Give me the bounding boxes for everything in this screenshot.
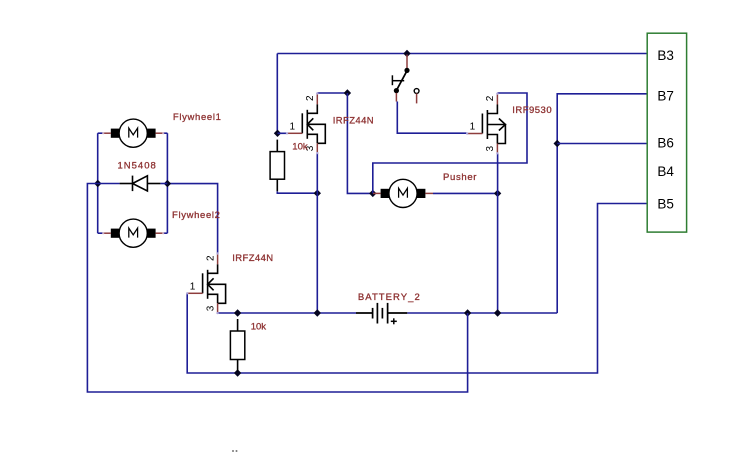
wire far-left drop to bottom rail xyxy=(87,184,467,393)
svg-text:B5: B5 xyxy=(657,196,674,211)
battery BATTERY_2 xyxy=(356,312,373,314)
wire Flywheel1 right stub xyxy=(163,132,167,134)
svg-text:1: 1 xyxy=(470,122,476,133)
node diode left junction xyxy=(94,180,101,187)
wire Flywheel2 left stub xyxy=(98,232,104,234)
node battery rail / Q1-source junction xyxy=(314,309,321,316)
svg-text:Flywheel1: Flywheel1 xyxy=(173,112,222,123)
wire from Q1 drain node down to Pusher row xyxy=(347,93,372,193)
mosfet Q2 IRFZ44N xyxy=(202,273,204,293)
node switch top junction xyxy=(403,50,410,57)
resistor R2 10k xyxy=(237,319,239,331)
svg-text:10k: 10k xyxy=(251,322,267,333)
svg-text:2: 2 xyxy=(305,95,316,101)
mosfet Q1 IRFZ44N xyxy=(301,113,303,133)
node battery rail / Pusher junction xyxy=(494,309,501,316)
svg-text:3: 3 xyxy=(205,305,216,311)
svg-text:3: 3 xyxy=(485,146,496,152)
wire Pusher left up-and-over to IRF9530 drain xyxy=(373,93,527,193)
motor Flywheel1 xyxy=(119,119,147,147)
wire Q1 drain to corner xyxy=(317,92,347,94)
svg-text:10k: 10k xyxy=(292,142,308,153)
wire from B5 down and across to Q2 gate xyxy=(187,204,647,374)
svg-text:IRF9530: IRF9530 xyxy=(512,105,552,116)
node battery rail / bottom-loop junction xyxy=(464,309,471,316)
svg-text:1: 1 xyxy=(190,281,196,292)
wire battery rail right segment xyxy=(407,312,557,314)
wire R1 bottom to Q1 source vertical xyxy=(277,191,317,193)
svg-text:Pusher: Pusher xyxy=(443,172,477,183)
node R1-bottom / Q1 source junction xyxy=(314,190,321,197)
wire diode left stub xyxy=(98,183,120,185)
svg-text:2: 2 xyxy=(485,95,496,101)
svg-text:B6: B6 xyxy=(657,135,674,150)
wire Flywheel2 right stub xyxy=(163,232,167,234)
wire battery rail up right side to B7 xyxy=(557,94,647,313)
wire left vertical from top rail to Q1 gate node xyxy=(276,54,278,134)
node Pusher left junction xyxy=(369,190,376,197)
wire diode right stub xyxy=(160,183,167,185)
node Q2 source junction xyxy=(234,309,241,316)
stray marks bottom xyxy=(232,450,234,452)
wire Q2 drain up to diode row xyxy=(167,184,217,254)
wire right motor loop vertical xyxy=(166,133,168,233)
svg-text:B4: B4 xyxy=(657,164,674,179)
wire Flywheel1 left stub xyxy=(98,132,104,134)
node Pusher right junction xyxy=(494,190,501,197)
node diode right junction xyxy=(164,180,171,187)
svg-text:IRFZ44N: IRFZ44N xyxy=(232,253,273,264)
motor Flywheel2 xyxy=(119,219,147,247)
wire Pusher right node down to battery rail xyxy=(497,193,499,313)
wire battery rail left segment from Q2 source xyxy=(218,312,356,314)
diode D1 1N5408 xyxy=(120,183,133,185)
svg-text:IRFZ44N: IRFZ44N xyxy=(333,116,374,127)
wire to B6 xyxy=(557,143,647,145)
wire top rail to B3 xyxy=(277,53,647,55)
resistor R1 10k xyxy=(276,140,278,152)
node R2 bottom junction xyxy=(234,369,241,376)
svg-text:1N5408: 1N5408 xyxy=(118,161,157,172)
svg-text:B7: B7 xyxy=(657,88,674,103)
node Q1 gate junction xyxy=(274,130,281,137)
wire Q1 gate stub xyxy=(278,132,288,134)
switch S1 xyxy=(406,55,408,69)
svg-text:1: 1 xyxy=(290,121,296,132)
svg-text:B3: B3 xyxy=(657,48,674,63)
wire Q3 source down to Pusher right node xyxy=(497,153,499,193)
svg-text:2: 2 xyxy=(205,255,216,261)
node Q1 drain wire junction xyxy=(344,89,351,96)
svg-text:BATTERY_2: BATTERY_2 xyxy=(358,292,421,303)
wire switch pole down to Q3 gate xyxy=(397,102,467,134)
wire Pusher right to junction xyxy=(433,192,498,194)
svg-text:Flywheel2: Flywheel2 xyxy=(172,210,221,221)
connector J1 header xyxy=(647,33,686,232)
wire left motor loop vertical xyxy=(97,133,99,233)
motor Pusher xyxy=(389,179,417,207)
mosfet Q3 IRF9530 xyxy=(481,114,483,134)
wire Q1 source vertical down to battery rail xyxy=(316,153,318,313)
node B6 tap junction xyxy=(554,140,561,147)
